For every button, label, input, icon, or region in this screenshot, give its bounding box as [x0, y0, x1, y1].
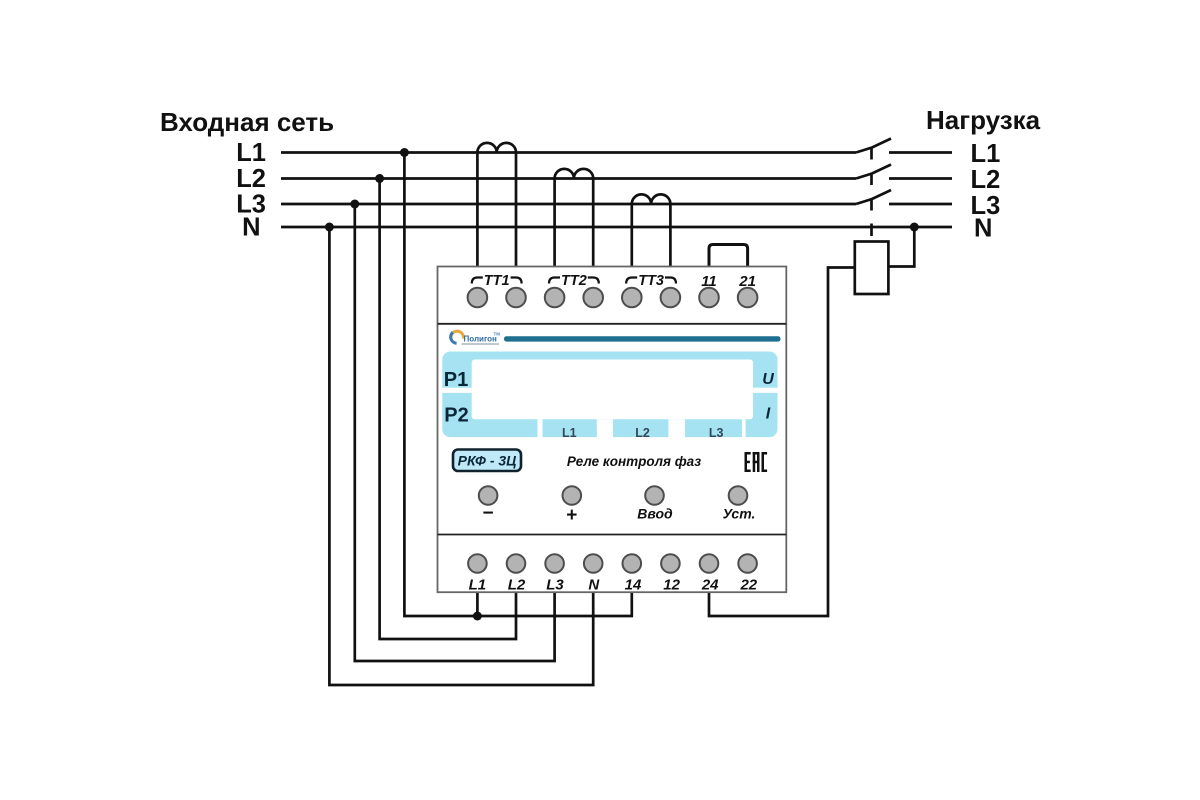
svg-text:N: N	[974, 215, 992, 243]
TT1 label hooks	[472, 278, 522, 284]
bottom terminal labels	[469, 577, 758, 594]
junction dot on N (left)	[325, 223, 334, 232]
wire N neutral line	[281, 226, 952, 229]
svg-text:Нагрузка: Нагрузка	[926, 105, 1041, 135]
svg-text:I: I	[766, 406, 771, 423]
wire from L1 junction down to bottom row 1	[404, 153, 631, 617]
button minus	[479, 486, 498, 505]
svg-text:L2: L2	[508, 577, 526, 594]
wire stub terminal L1 to row 1	[476, 592, 479, 616]
wire from coil to N tap	[888, 227, 914, 267]
svg-text:L2: L2	[971, 166, 1001, 194]
junction dot on N (right, at coil tap)	[910, 223, 919, 232]
wire from terminal 24 to contactor coil	[709, 268, 855, 617]
button plus	[563, 486, 582, 505]
svg-text:N: N	[588, 577, 600, 594]
display white window	[472, 360, 753, 420]
white gap left column	[441, 388, 471, 393]
contactor coil box	[855, 242, 889, 295]
svg-text:12: 12	[663, 577, 680, 594]
junction dot on L2	[375, 174, 384, 183]
junction dot on L1	[400, 148, 409, 157]
TT3 label hooks	[626, 278, 676, 284]
svg-text:Реле контроля фаз: Реле контроля фаз	[567, 454, 701, 469]
terminal label TT1	[484, 273, 756, 290]
switch contact blade L1	[856, 139, 891, 153]
svg-text:−: −	[483, 503, 494, 524]
relay device body	[438, 267, 787, 593]
wire from N junction down to terminal N	[329, 227, 593, 685]
svg-text:Ввод: Ввод	[637, 506, 673, 522]
button Уст.	[729, 486, 748, 505]
switch contact blade L3	[856, 190, 891, 204]
TT2 label hooks	[549, 278, 599, 284]
white gap right column	[753, 388, 779, 393]
logo underline	[462, 343, 500, 345]
svg-text:L1: L1	[562, 426, 577, 440]
junction dot on L3	[350, 200, 359, 209]
wire L1 phase line (left segment)	[281, 151, 856, 154]
svg-text:L1: L1	[469, 577, 487, 594]
model badge РКФ-3Ц	[453, 450, 521, 472]
svg-text:Полигон: Полигон	[464, 335, 498, 344]
svg-text:Входная сеть: Входная сеть	[160, 107, 334, 137]
wire L2 phase line (left segment)	[281, 177, 856, 180]
svg-text:14: 14	[625, 577, 642, 594]
manufacturer logo swirl	[451, 331, 464, 343]
svg-text:P2: P2	[444, 405, 468, 427]
EAC mark	[745, 452, 768, 472]
top terminal circles	[468, 288, 758, 308]
white gaps bottom strip	[538, 419, 543, 438]
CT TT1 secondary leads	[476, 153, 479, 271]
svg-text:L2: L2	[236, 165, 266, 193]
svg-text:L3: L3	[546, 577, 564, 594]
svg-text:U: U	[762, 371, 774, 388]
svg-text:L3: L3	[709, 426, 724, 440]
svg-text:P1: P1	[444, 369, 468, 391]
svg-text:L1: L1	[236, 139, 266, 167]
wire from L2 junction down to terminal L2	[380, 179, 516, 640]
switch contact blade L2	[856, 165, 891, 179]
wire L3 phase line (load side segment)	[889, 203, 952, 206]
svg-text:22: 22	[739, 577, 757, 594]
bottom terminal circles	[468, 554, 757, 573]
svg-text:ТМ: ТМ	[494, 332, 501, 337]
svg-text:РКФ - 3Ц: РКФ - 3Ц	[458, 453, 517, 469]
current transformer TT3 (humps on L3)	[632, 194, 671, 204]
CT TT3 secondary leads	[630, 204, 633, 270]
svg-text:ТТ2: ТТ2	[561, 273, 587, 289]
device top divider	[438, 323, 787, 325]
svg-text:ТТ3: ТТ3	[638, 273, 664, 289]
wire L3 phase line (left segment)	[281, 203, 856, 206]
jumper between terminals 11 and 21	[709, 245, 748, 268]
svg-text:+: +	[566, 505, 577, 526]
button Ввод	[645, 486, 664, 505]
svg-text:24: 24	[701, 577, 719, 594]
mechanical link (dashed) of contactor	[870, 147, 873, 242]
wire L1 phase line (load side segment)	[889, 151, 952, 154]
wire L2 phase line (load side segment)	[889, 177, 952, 180]
wire from L3 junction down to terminal L3	[355, 204, 555, 661]
junction dot at terminal L1 wire	[473, 612, 482, 621]
CT TT2 secondary leads	[553, 179, 556, 271]
display cyan panel	[442, 352, 777, 438]
teal header bar	[504, 336, 781, 341]
svg-text:L2: L2	[635, 426, 650, 440]
current transformer TT2 (humps on L2)	[555, 169, 594, 179]
svg-text:Уст.: Уст.	[723, 506, 756, 522]
svg-text:N: N	[242, 214, 260, 242]
svg-text:ТТ1: ТТ1	[484, 273, 510, 289]
device bottom divider	[438, 534, 787, 536]
svg-text:L1: L1	[971, 140, 1001, 168]
current transformer TT1 (humps on L1)	[477, 143, 516, 153]
